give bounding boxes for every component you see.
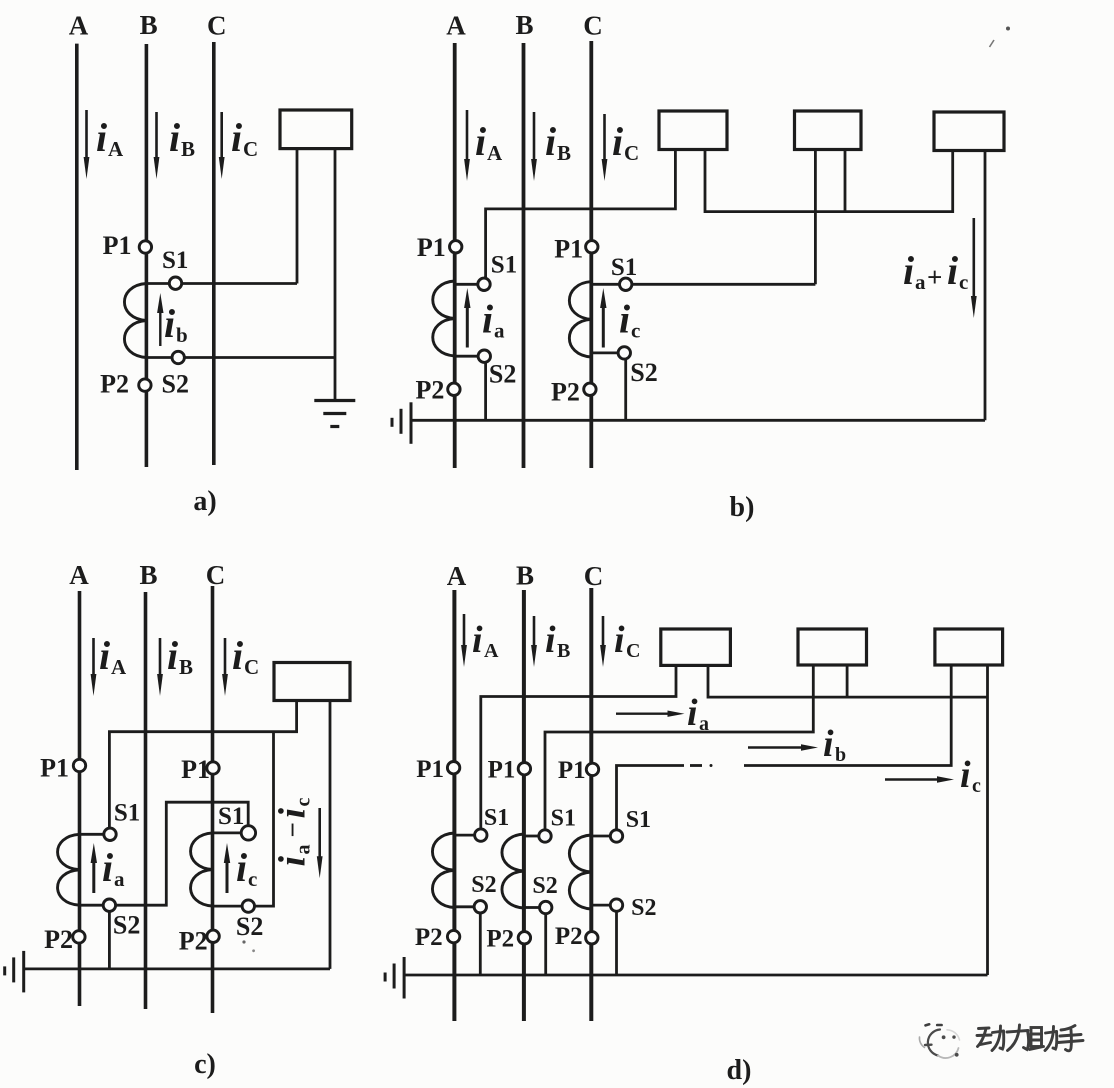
- terminal S2 of T2 (diagram d): [540, 901, 552, 913]
- instrument M2 (diagram b): [795, 111, 862, 150]
- svg-text:i: i: [475, 119, 486, 164]
- svg-text:i: i: [614, 619, 625, 661]
- svg-text:a: a: [494, 319, 505, 343]
- svg-text:i: i: [903, 248, 914, 293]
- current arrow iC (diagram a): [220, 112, 223, 165]
- svg-text:P2: P2: [416, 376, 445, 405]
- svg-text:S1: S1: [551, 806, 576, 832]
- flow arrow ia (diagram d): [616, 713, 671, 715]
- terminal S2 of T1 (diagram b): [478, 350, 490, 362]
- svg-text:i: i: [545, 119, 556, 164]
- wire: return bus M1right-M2right-M3right (diagram d): [708, 665, 988, 697]
- ground (diagram b): [391, 418, 394, 427]
- svg-text:S2: S2: [162, 370, 189, 399]
- svg-text:S1: S1: [218, 803, 244, 830]
- svg-text:i: i: [96, 115, 107, 160]
- svg-text:C: C: [583, 11, 603, 41]
- phase bus A (diagram c): [78, 591, 82, 1006]
- svg-text:C: C: [207, 11, 227, 41]
- rotated label ia-ic (diagram c): [272, 798, 315, 867]
- svg-text:P2: P2: [44, 925, 73, 954]
- watermark text 助: [1030, 1027, 1057, 1051]
- svg-text:i: i: [102, 845, 113, 890]
- svg-text:P2: P2: [100, 370, 129, 399]
- speck near P2 of T2 (diagram c): [242, 940, 245, 943]
- terminal S1 of T2 (diagram c): [241, 826, 255, 840]
- current arrow iA (diagram d): [463, 614, 466, 653]
- svg-text:P2: P2: [551, 378, 580, 407]
- current arrow iC (diagram c): [224, 638, 227, 682]
- svg-text:a: a: [114, 867, 125, 891]
- wire: S1a riser and bus to M1 left lead (diagram b): [484, 150, 675, 278]
- svg-text:d): d): [727, 1055, 752, 1086]
- svg-text:i: i: [823, 723, 834, 765]
- wire: M2 right lead (diagram d): [846, 665, 849, 697]
- svg-text:P2: P2: [555, 923, 583, 950]
- ground (diagram c): [3, 966, 6, 975]
- svg-text:P1: P1: [103, 231, 132, 260]
- svg-text:i: i: [232, 633, 243, 678]
- CT secondary winding T3 on phase C (diagram d): [569, 835, 591, 909]
- svg-text:S1: S1: [484, 805, 509, 831]
- svg-text:C: C: [244, 655, 259, 679]
- wire: S2b stub and riser to ground bus (diagram d): [524, 906, 540, 909]
- current arrow ic (diagram b): [602, 302, 605, 348]
- instrument M3 (diagram b): [934, 112, 1004, 151]
- wire: S1c riser and ic bus segment 1 (diagram d): [617, 766, 685, 830]
- terminal S1 (diagram a): [169, 277, 181, 289]
- terminal S2 of T2 (diagram c): [242, 900, 254, 912]
- wire: S1b riser and ib bus to M2 left lead (diagram d): [545, 665, 813, 830]
- svg-text:B: B: [515, 10, 533, 40]
- svg-text:B: B: [139, 560, 157, 590]
- wire: instrument left lead to S1 wire (diagram a): [296, 149, 299, 284]
- instrument M1 (diagram d): [661, 629, 731, 665]
- svg-text:A: A: [108, 137, 124, 161]
- svg-text:A: A: [69, 560, 89, 590]
- speck slash top right: [990, 40, 995, 47]
- flow arrow ib (diagram d): [748, 746, 804, 748]
- watermark text 手: [1058, 1026, 1083, 1051]
- wire: M3 right lead down to ground bus (diagram d): [986, 665, 989, 975]
- terminal P2 of T1 (diagram b): [448, 383, 460, 395]
- wire: S2a stub and riser to ground bus (diagram b): [455, 355, 485, 358]
- wire: S2c riser to instrument bus (diagram c): [255, 732, 274, 906]
- terminal P2 of T2 (diagram c): [207, 930, 219, 942]
- svg-text:S1: S1: [491, 252, 517, 279]
- svg-text:S1: S1: [611, 254, 637, 281]
- svg-text:a: a: [699, 713, 709, 735]
- wire: M2 left lead down to S1c wire (diagram b): [814, 150, 817, 285]
- CT secondary winding T1 on phase A (diagram b): [433, 281, 455, 356]
- wire: return bus M1right-M2right-M3left (diagram b): [705, 150, 953, 212]
- svg-text:S2: S2: [489, 360, 516, 389]
- svg-text:c: c: [959, 270, 968, 294]
- svg-text:B: B: [557, 640, 570, 662]
- wire: ground bus (diagram d): [404, 974, 987, 977]
- terminal S2 of T2 (diagram b): [618, 347, 630, 359]
- terminal P2 of T1 (diagram c): [73, 931, 85, 943]
- wire: ic bus dash fragment (diagram d): [690, 764, 702, 767]
- wire: ground bus (diagram c): [25, 968, 330, 971]
- wire: S2c stub and riser to ground bus (diagram d): [591, 904, 610, 907]
- svg-text:i: i: [612, 119, 623, 164]
- instrument M3 (diagram d): [935, 629, 1003, 665]
- svg-text:i: i: [164, 301, 175, 346]
- svg-text:c: c: [248, 867, 257, 891]
- svg-text:B: B: [516, 561, 534, 591]
- svg-text:A: A: [69, 11, 89, 41]
- svg-text:i: i: [99, 633, 110, 678]
- watermark text 力: [1007, 1025, 1029, 1051]
- svg-text:c: c: [631, 319, 640, 343]
- current arrow ia (diagram b): [466, 302, 469, 348]
- current arrow iA (diagram a): [85, 110, 88, 165]
- svg-text:A: A: [447, 561, 467, 591]
- terminal P2 of T3 (diagram d): [586, 932, 598, 944]
- svg-text:i: i: [960, 754, 971, 796]
- svg-text:S2: S2: [532, 873, 557, 899]
- svg-text:i: i: [236, 845, 247, 890]
- svg-text:P2: P2: [179, 927, 208, 956]
- watermark text 动: [977, 1026, 1004, 1051]
- phase bus C (diagram a): [212, 42, 216, 465]
- wire: S2c stub and riser to ground bus (diagram b): [591, 351, 624, 354]
- wire: S1a riser and ia bus to M1 left lead (diagram d): [481, 665, 676, 828]
- wire: S2a stub and riser to ground bus (diagram d): [454, 905, 474, 908]
- current arrow iA (diagram c): [92, 638, 95, 682]
- current arrow iB (diagram c): [159, 638, 162, 682]
- wire: S1c to M2 lead (diagram b): [591, 283, 815, 286]
- svg-text:S1: S1: [626, 807, 651, 833]
- current arrow iC (diagram b): [603, 114, 606, 167]
- svg-text:i: i: [687, 692, 698, 734]
- wire: S2 to ground lead (diagram a): [146, 356, 335, 359]
- wire: S2c stub (diagram c): [213, 905, 243, 908]
- svg-text:B: B: [179, 655, 193, 679]
- instrument M2 (diagram d): [798, 629, 867, 665]
- wire: S1c stub (diagram c): [213, 832, 243, 835]
- terminal P2 of T2 (diagram d): [518, 932, 530, 944]
- speck dot top right: [1006, 27, 1010, 31]
- svg-text:b: b: [176, 323, 188, 347]
- svg-text:b): b): [730, 492, 755, 523]
- terminal S1 of T1 (diagram c): [104, 828, 116, 840]
- svg-text:C: C: [626, 640, 640, 662]
- svg-text:+: +: [927, 262, 942, 292]
- svg-text:S2: S2: [113, 910, 140, 939]
- wire: S2a to S1c link (diagram c): [116, 802, 249, 905]
- terminal S1 of T2 (diagram d): [539, 830, 551, 842]
- terminal S1 of T1 (diagram d): [475, 829, 487, 841]
- svg-text:a: a: [293, 845, 315, 855]
- svg-text:i: i: [545, 619, 556, 661]
- ground (diagram a): [314, 399, 355, 402]
- phase bus C (diagram c): [211, 586, 215, 1013]
- terminal P1 of T1 (diagram b): [450, 241, 462, 253]
- terminal S2 of T3 (diagram d): [610, 899, 622, 911]
- terminal P2 of T2 (diagram b): [584, 383, 596, 395]
- svg-text:i: i: [472, 619, 483, 661]
- current arrow iB (diagram d): [533, 616, 536, 653]
- terminal P2 of T1 (diagram d): [447, 930, 459, 942]
- terminal S2 of T1 (diagram c): [103, 899, 115, 911]
- svg-text:B: B: [140, 10, 158, 40]
- current arrow iB (diagram b): [533, 112, 536, 167]
- wire: M3 right lead down to ground bus (diagram b): [984, 151, 987, 421]
- svg-text:a): a): [193, 486, 216, 517]
- current arrow iB (diagram a): [155, 112, 158, 165]
- svg-text:i: i: [947, 248, 958, 293]
- terminal S2 (diagram a): [172, 351, 184, 363]
- current arrow ib (diagram a): [159, 307, 161, 346]
- svg-text:i: i: [167, 633, 178, 678]
- wire: S1c stub (diagram d): [591, 835, 610, 838]
- svg-text:S2: S2: [631, 895, 656, 921]
- svg-text:S1: S1: [114, 799, 140, 826]
- svg-text:P1: P1: [554, 234, 583, 263]
- svg-text:A: A: [446, 11, 466, 41]
- CT secondary winding T1 on phase A (diagram c): [58, 834, 80, 905]
- phase bus B (diagram b): [522, 43, 526, 468]
- svg-text:i: i: [272, 808, 314, 819]
- svg-text:b: b: [835, 744, 846, 766]
- wire: M2 right lead (diagram b): [844, 150, 847, 212]
- svg-text:S2: S2: [630, 358, 657, 387]
- terminal P1 (diagram a): [139, 241, 151, 253]
- svg-text:A: A: [484, 640, 499, 662]
- phase bus A (diagram d): [452, 590, 456, 1021]
- svg-text:i: i: [619, 297, 630, 342]
- svg-text:C: C: [624, 141, 639, 165]
- svg-text:P1: P1: [181, 755, 210, 784]
- terminal P1 of T1 (diagram c): [73, 759, 85, 771]
- instrument M1 (diagram b): [659, 111, 727, 150]
- wire: ground bus (diagram b): [411, 419, 985, 422]
- svg-text:c): c): [194, 1049, 216, 1080]
- svg-text:a: a: [915, 270, 926, 294]
- terminal S1 of T1 (diagram b): [478, 278, 490, 290]
- svg-text:P1: P1: [40, 754, 69, 783]
- wire: ic bus segment 2 to M3 left lead (diagram d): [744, 665, 951, 766]
- current arrow iC (diagram d): [602, 616, 605, 653]
- svg-text:S1: S1: [162, 247, 188, 274]
- CT secondary winding T2 on phase C (diagram c): [191, 833, 213, 906]
- svg-text:c: c: [293, 798, 315, 807]
- CT secondary winding T1 on phase A (diagram d): [432, 833, 454, 908]
- svg-text:−: −: [278, 822, 308, 837]
- phase bus B (diagram d): [522, 590, 526, 1021]
- phase bus C (diagram d): [589, 588, 593, 1021]
- svg-text:i: i: [231, 115, 242, 160]
- svg-text:B: B: [181, 137, 195, 161]
- svg-text:C: C: [206, 560, 226, 590]
- flow arrow ia+ic (diagram b): [972, 218, 975, 304]
- svg-text:c: c: [972, 775, 981, 797]
- svg-text:S2: S2: [236, 912, 263, 941]
- svg-text:B: B: [557, 141, 571, 165]
- flow arrow ia-ic (diagram c): [318, 808, 321, 864]
- flow arrow ic (diagram d): [885, 778, 940, 780]
- current arrow ia (diagram c): [92, 857, 95, 893]
- watermark logo circle: [919, 1024, 959, 1058]
- terminal P1 of T2 (diagram b): [586, 241, 598, 253]
- phase bus B (diagram c): [144, 592, 148, 1009]
- instrument M1 (diagram c): [274, 663, 350, 701]
- ground (diagram d): [384, 973, 387, 982]
- svg-text:C: C: [243, 137, 258, 161]
- svg-text:i: i: [169, 115, 180, 160]
- terminal S1 of T2 (diagram b): [620, 278, 632, 290]
- svg-text:P2: P2: [415, 924, 443, 951]
- terminal P1 of T3 (diagram d): [586, 763, 598, 775]
- svg-text:i: i: [272, 856, 314, 867]
- svg-text:i: i: [482, 297, 493, 342]
- svg-text:A: A: [111, 655, 127, 679]
- instrument M1 (diagram a): [280, 110, 352, 149]
- svg-text:P1: P1: [488, 757, 516, 784]
- phase bus B (diagram a): [145, 44, 149, 467]
- wire: S1a stub (diagram d): [454, 834, 474, 837]
- terminal P1 of T2 (diagram c): [207, 762, 219, 774]
- wire: S2a stub (diagram c): [80, 904, 104, 907]
- terminal P1 of T1 (diagram d): [447, 762, 459, 774]
- phase bus A (diagram b): [453, 43, 457, 468]
- CT secondary winding T2 on phase B (diagram d): [502, 834, 524, 908]
- wire: S2a ground drop (diagram c): [108, 912, 111, 969]
- svg-text:C: C: [584, 561, 604, 591]
- CT secondary winding T1 (diagram a): [124, 284, 146, 358]
- svg-text:P1: P1: [558, 757, 586, 784]
- terminal S1 of T3 (diagram d): [610, 830, 622, 842]
- current arrow iA (diagram b): [466, 110, 469, 167]
- svg-text:P2: P2: [486, 925, 514, 952]
- phase bus A (diagram a): [75, 44, 79, 470]
- wire: S1b stub (diagram d): [524, 835, 539, 838]
- wire: M1 left lead, bus and riser to S1a (diagram c): [109, 701, 296, 828]
- wire: S1a stub (diagram b): [455, 283, 484, 286]
- wire: S1 to instrument (diagram a): [146, 282, 297, 285]
- terminal S2 of T1 (diagram d): [474, 901, 486, 913]
- terminal P2 (diagram a): [139, 379, 151, 391]
- svg-text:P1: P1: [417, 233, 446, 262]
- current arrow ic (diagram c): [226, 857, 229, 893]
- CT secondary winding T2 on phase C (diagram b): [569, 282, 591, 357]
- svg-text:A: A: [487, 141, 503, 165]
- terminal P1 of T2 (diagram d): [518, 763, 530, 775]
- wire: M1 right lead down to ground bus (diagram c): [329, 701, 332, 969]
- svg-text:S2: S2: [471, 872, 496, 898]
- phase bus C (diagram b): [589, 41, 593, 468]
- svg-text:P1: P1: [416, 756, 444, 783]
- wire: S1a stub (diagram c): [80, 833, 105, 836]
- wire: instrument right lead down to ground (diagram a): [334, 149, 337, 401]
